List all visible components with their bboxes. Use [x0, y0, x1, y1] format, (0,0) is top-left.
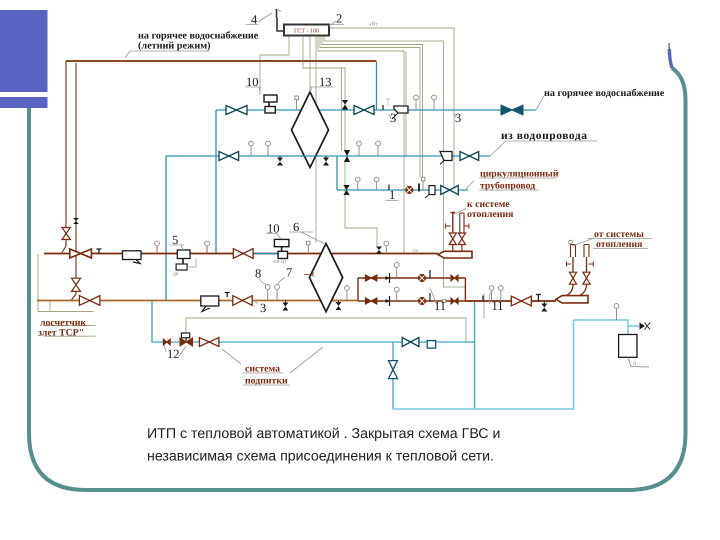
- svg-text:11: 11: [492, 299, 504, 313]
- svg-text:12: 12: [167, 347, 180, 361]
- svg-text:дв: дв: [173, 271, 179, 277]
- svg-text:отопления: отопления: [467, 209, 514, 220]
- svg-text:8: 8: [255, 267, 261, 281]
- svg-text:2: 2: [336, 12, 342, 26]
- svg-text:злет ТСР": злет ТСР": [38, 328, 84, 339]
- svg-text:1: 1: [389, 188, 395, 202]
- svg-text:гв: гв: [413, 248, 418, 254]
- svg-text:кВт: кВт: [369, 22, 378, 28]
- svg-text:независимая схема присоединени: независимая схема присоединения к теплов…: [147, 449, 494, 465]
- svg-text:d: d: [633, 361, 636, 367]
- svg-text:ИТП с тепловой автоматикой . З: ИТП с тепловой автоматикой . Закрытая сх…: [147, 426, 500, 442]
- svg-text:3: 3: [260, 301, 266, 315]
- svg-text:из водопровода: из водопровода: [501, 130, 588, 142]
- svg-text:АВ-ЦЗ: АВ-ЦЗ: [273, 259, 287, 264]
- svg-text:ГСТ - 100: ГСТ - 100: [294, 29, 319, 35]
- svg-text:7: 7: [286, 266, 292, 280]
- svg-text:(летний режим): (летний режим): [138, 41, 211, 52]
- svg-text:на горячее водоснабжение: на горячее водоснабжение: [544, 88, 665, 99]
